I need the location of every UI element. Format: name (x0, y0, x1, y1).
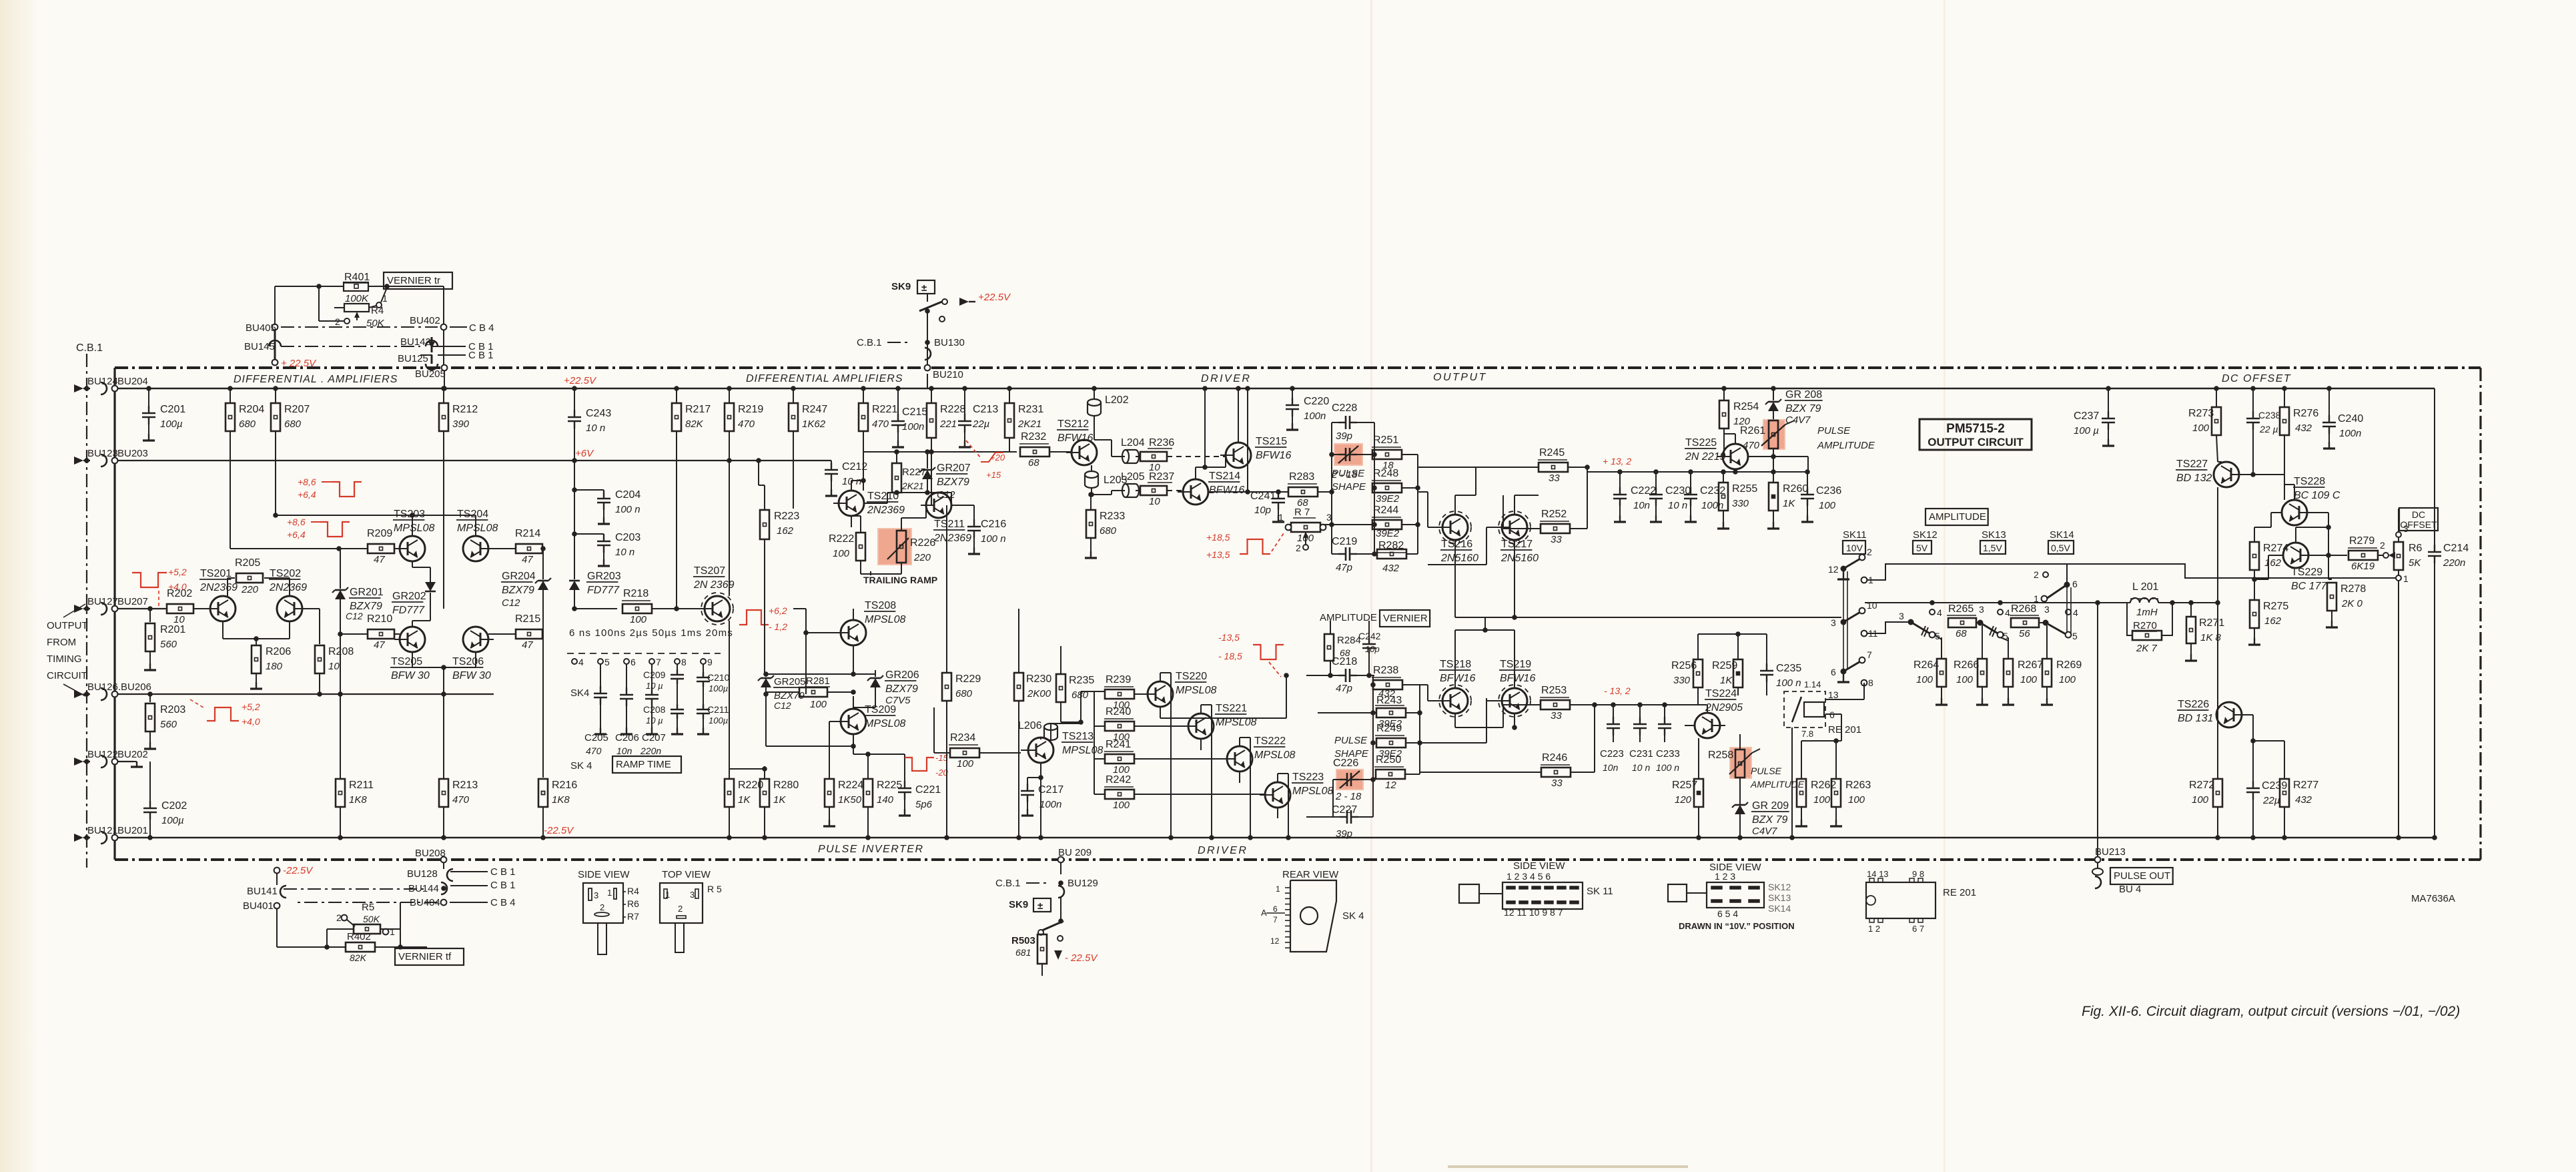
svg-text:3: 3 (2044, 604, 2050, 615)
svg-text:+8,6: +8,6 (287, 517, 306, 527)
wire rail -22.5V bottom (115, 825, 2435, 838)
resistor R204 (226, 386, 368, 549)
capacitor C214 220n (2428, 388, 2469, 840)
resistor R203 (144, 691, 185, 749)
svg-text:4: 4 (2005, 607, 2010, 618)
switch SK12 labels (1913, 529, 1938, 554)
svg-text:6 ns 100ns 2µs 50µs 1ms 2: 6 ns 100ns 2µs 50µs 1ms 20ms (569, 627, 733, 639)
svg-text:C12: C12 (937, 489, 955, 501)
svg-text:TS207: TS207 (694, 565, 725, 577)
wire driver collector rails (1160, 673, 1289, 718)
transistor TS201 (199, 568, 238, 621)
wire CB4 top (281, 322, 494, 334)
input connector BU127 (74, 596, 148, 615)
svg-text:R237: R237 (1149, 471, 1174, 483)
svg-text:100 n: 100 n (615, 504, 640, 515)
input connector BU122 (74, 749, 148, 768)
svg-text:10p: 10p (1365, 644, 1380, 654)
svg-text:+5,2: +5,2 (168, 567, 187, 577)
svg-text:1K50: 1K50 (838, 794, 862, 806)
svg-text:C226: C226 (1333, 758, 1358, 769)
svg-text:1.14: 1.14 (1804, 679, 1821, 689)
svg-text:2: 2 (336, 912, 342, 923)
transistor TS225 (1685, 437, 1748, 469)
connector BU128 (407, 866, 516, 881)
svg-text:L 201: L 201 (2132, 581, 2159, 593)
svg-text:1K62: 1K62 (802, 418, 826, 430)
switch SK4 dashed bar (567, 653, 721, 654)
resistor R268 56 (2000, 603, 2048, 659)
wire TS215 collector up (1236, 386, 1241, 443)
svg-text:Fig. XII-6. Circuit diagram, o: Fig. XII-6. Circuit diagram, output circ… (2082, 1004, 2460, 1019)
svg-text:C220: C220 (1304, 396, 1329, 407)
svg-text:C215: C215 (902, 406, 927, 418)
svg-text:10n: 10n (1603, 762, 1619, 773)
svg-text:R211: R211 (349, 780, 374, 791)
svg-text:- 1,2: - 1,2 (769, 621, 787, 632)
svg-text:R210: R210 (367, 613, 392, 625)
svg-text:TS222: TS222 (1254, 736, 1286, 747)
svg-text:R205: R205 (235, 557, 260, 569)
wire TS216 TS217 collectors (1455, 540, 1841, 620)
wire TS210-TS211 net (851, 478, 974, 527)
svg-text:2N 2369: 2N 2369 (693, 579, 735, 591)
svg-text:10p: 10p (1254, 505, 1271, 516)
svg-text:+ 22.5V: + 22.5V (281, 358, 317, 369)
capacitor C237 100u (2074, 386, 2115, 446)
svg-text:R212: R212 (452, 404, 478, 415)
drawing top view R5 (660, 869, 722, 952)
svg-text:SHAPE: SHAPE (1332, 481, 1366, 493)
svg-text:C243: C243 (586, 408, 611, 419)
resistor R228 (927, 386, 965, 493)
svg-text:680: 680 (1100, 525, 1117, 537)
resistor R254 120 (1719, 386, 1759, 444)
svg-text:L202: L202 (1105, 394, 1129, 406)
svg-text:10: 10 (1149, 496, 1160, 507)
svg-text:162: 162 (2264, 557, 2282, 569)
svg-text:C231: C231 (1629, 748, 1653, 760)
svg-text:R249: R249 (1376, 723, 1402, 734)
resistor R238 432 (1372, 665, 1402, 699)
svg-text:- 18,5: - 18,5 (1218, 651, 1242, 661)
svg-text:R4: R4 (371, 305, 384, 316)
svg-text:R240: R240 (1106, 706, 1131, 717)
svg-text:R503: R503 (1011, 935, 1035, 946)
svg-text:±: ± (921, 282, 927, 294)
transistor TS219 (1496, 659, 1535, 717)
svg-text:120: 120 (1675, 794, 1692, 806)
svg-text:C216: C216 (981, 519, 1006, 530)
capacitor C202 (143, 762, 187, 840)
capacitor C231 10n (1629, 705, 1653, 773)
svg-text:162: 162 (777, 525, 794, 537)
svg-text:R263: R263 (1845, 780, 1871, 791)
resistor R240 100 (1094, 691, 1188, 743)
trimmer R226 highlighted (877, 518, 935, 574)
svg-text:R 7: R 7 (1294, 507, 1310, 518)
resistor R233 680 (1085, 492, 1125, 558)
svg-text:BU122: BU122 (87, 749, 118, 760)
switch SK12 pole (1899, 611, 1940, 641)
resistor R249 39E2 (1375, 723, 1406, 760)
svg-text:2N2369: 2N2369 (933, 533, 971, 544)
transistor TS209 (829, 696, 905, 746)
diode GR203 FD777 (569, 461, 621, 611)
svg-text:680: 680 (284, 418, 302, 430)
svg-text:R270: R270 (2133, 620, 2157, 631)
resistor R503 681 (1011, 932, 1047, 976)
svg-text:R267: R267 (2018, 659, 2043, 671)
svg-text:DC OFFSET: DC OFFSET (2222, 373, 2291, 384)
red waveform +8,6 +6,4 lower (287, 517, 350, 540)
svg-text:C204: C204 (615, 489, 640, 501)
svg-text:+20: +20 (990, 453, 1005, 463)
svg-text:10 n: 10 n (586, 422, 605, 434)
svg-text:- 13, 2: - 13, 2 (1604, 685, 1631, 696)
wire TS225 nets (1723, 434, 1808, 475)
svg-text:6: 6 (2072, 579, 2078, 589)
svg-text:100 n: 100 n (981, 533, 1006, 545)
svg-text:GR205: GR205 (774, 676, 806, 687)
wire R6 top to bus 845 (2395, 563, 2396, 565)
transistor TS212 (1057, 418, 1097, 465)
diode GR204 BZX79 C12 (501, 546, 551, 778)
svg-text:GR204: GR204 (502, 571, 536, 582)
resistor R282 432 (1377, 540, 1406, 574)
svg-text:10: 10 (1867, 600, 1877, 611)
svg-text:BU204: BU204 (117, 376, 148, 387)
wire vernier tr top (275, 284, 444, 365)
svg-text:6: 6 (1273, 904, 1278, 914)
svg-text:BU142: BU142 (400, 336, 431, 348)
svg-text:R281: R281 (806, 675, 830, 687)
capacitor C206 (615, 664, 639, 756)
svg-text:47: 47 (374, 554, 385, 565)
resistor R281 100 (766, 675, 856, 710)
transistor TS217 (1496, 511, 1539, 564)
connector BU401 (243, 900, 280, 947)
resistor R253 33 (1540, 685, 1597, 721)
resistor R234 100 (853, 707, 1021, 770)
svg-text:R6: R6 (627, 898, 639, 909)
svg-text:R230: R230 (1026, 673, 1051, 685)
svg-text:39E2: 39E2 (1376, 528, 1400, 539)
wire TS203 TS204 collect (273, 513, 476, 536)
svg-text:VERNIER: VERNIER (1383, 613, 1428, 624)
svg-text:100 n: 100 n (1776, 677, 1801, 689)
svg-text:7.8: 7.8 (1801, 729, 1813, 739)
capacitor C239 22u (2246, 780, 2287, 840)
svg-text:470: 470 (586, 746, 602, 756)
svg-text:220n: 220n (640, 746, 661, 756)
connector BU145 (244, 330, 281, 360)
resistor R277 432 (2280, 778, 2318, 840)
svg-text:22µ: 22µ (972, 418, 989, 430)
resistor R218 100 (574, 588, 699, 625)
svg-text:TS205: TS205 (391, 656, 422, 667)
svg-text:SIDE VIEW: SIDE VIEW (578, 869, 630, 880)
resistor R263 100 (1830, 741, 1871, 826)
svg-text:2N2369: 2N2369 (199, 582, 238, 593)
svg-text:R224: R224 (838, 780, 863, 791)
red waveform +6,2 -1,2 (739, 605, 787, 632)
svg-text:100µ: 100µ (161, 815, 184, 826)
red waveform -13,5 -18,5 (1218, 632, 1284, 677)
resistor R215 47 (488, 613, 543, 651)
resistor R284 68 (1324, 621, 1361, 675)
svg-text:SK13: SK13 (1768, 892, 1791, 903)
svg-text:39p: 39p (1336, 828, 1352, 840)
svg-text:R269: R269 (2056, 659, 2082, 671)
svg-text:+4,0: +4,0 (242, 716, 260, 727)
svg-text:±: ± (1037, 900, 1043, 912)
switch SK9 lower (1009, 898, 1063, 941)
connector BU129 (995, 874, 1098, 898)
svg-text:R255: R255 (1732, 483, 1757, 495)
svg-text:10 n: 10 n (1632, 762, 1650, 773)
resistor R269 100 (2041, 625, 2082, 705)
svg-text:13: 13 (1828, 689, 1839, 700)
svg-text:R264: R264 (1913, 659, 1939, 671)
diode GR206 BZX79 C7V5 (867, 669, 919, 706)
svg-text:SK12: SK12 (1913, 529, 1938, 541)
C.B.1 vertical dash-dot line (76, 342, 103, 868)
svg-text:R228: R228 (940, 404, 965, 415)
trimmer C229 highlighted (1331, 443, 1374, 481)
svg-text:12: 12 (1828, 564, 1839, 575)
svg-text:12 11 10 9 8 7: 12 11 10 9 8 7 (1504, 907, 1563, 918)
svg-text:470: 470 (1743, 440, 1760, 451)
diode GR202 FD777 (392, 561, 436, 627)
svg-text:R401: R401 (344, 272, 370, 283)
transistor TS216 (1437, 511, 1478, 564)
svg-text:BZX 79: BZX 79 (1752, 814, 1787, 826)
svg-text:OUTPUT CIRCUIT: OUTPUT CIRCUIT (1927, 436, 2024, 449)
svg-text:R246: R246 (1542, 752, 1567, 764)
contact SK13-4 (1998, 607, 2010, 618)
svg-text:BC 109 C: BC 109 C (2294, 490, 2340, 501)
svg-text:R247: R247 (802, 404, 827, 415)
svg-text:BU202: BU202 (117, 749, 148, 760)
svg-text:220: 220 (241, 584, 259, 595)
svg-text:C201: C201 (160, 404, 185, 415)
svg-text:R266: R266 (1954, 659, 1979, 671)
resistor R266 100 (1954, 625, 1988, 705)
section title dc offset (2222, 373, 2291, 384)
svg-text:DIFFERENTIAL AMPLIFIERS: DIFFERENTIAL AMPLIFIERS (746, 373, 903, 384)
svg-text:R216: R216 (552, 780, 577, 791)
trimmer C226 highlighted (1333, 758, 1373, 802)
switch SK11 pole c (1831, 649, 1873, 699)
transistor TS226 (2177, 699, 2284, 784)
input connector BU121 (74, 825, 148, 844)
resistor R257 120 (1672, 738, 1703, 840)
svg-text:1 2 3: 1 2 3 (1715, 871, 1735, 882)
svg-text:TS203: TS203 (394, 509, 425, 520)
svg-text:R245: R245 (1539, 447, 1565, 459)
transistor TS214 (1178, 471, 1244, 505)
svg-text:10 n: 10 n (1668, 500, 1687, 511)
red waveform +5,2 +4,0 at BU206 (190, 699, 260, 727)
svg-text:C B 1: C B 1 (490, 866, 516, 878)
svg-text:82K: 82K (350, 952, 367, 963)
svg-text:R258: R258 (1708, 750, 1733, 761)
resistor R241 100 (1094, 726, 1227, 776)
svg-text:560: 560 (160, 639, 177, 650)
svg-text:1K: 1K (1720, 675, 1733, 686)
switch SK9 top (891, 280, 1011, 322)
wire TS205 TS206 emitters (412, 652, 476, 694)
svg-text:BU213: BU213 (2095, 846, 2126, 858)
svg-text:R202: R202 (167, 588, 192, 599)
svg-text:+18,5: +18,5 (1206, 532, 1230, 543)
resistor R239 100 (1104, 674, 1148, 711)
resistor R260 1K (1767, 472, 1808, 529)
svg-text:PULSE OUT: PULSE OUT (2114, 870, 2170, 882)
capacitor C212 (825, 461, 867, 496)
svg-text:PULSE: PULSE (1817, 425, 1851, 436)
capacitor C216 (967, 518, 1006, 554)
svg-text:390: 390 (452, 418, 470, 430)
svg-text:R214: R214 (515, 528, 540, 539)
svg-text:FD777: FD777 (587, 585, 620, 596)
transistor TS215 (1220, 436, 1291, 468)
resistor R272 100 (2189, 779, 2222, 840)
svg-text:C219: C219 (1332, 536, 1357, 547)
resistor R275 162 (2248, 579, 2288, 645)
resistor R224 1K50 (823, 721, 863, 826)
svg-text:+8,6: +8,6 (298, 477, 316, 487)
svg-text:1: 1 (390, 926, 395, 937)
drawing rear view SK4 (1261, 869, 1364, 952)
wire SK9 to BU130 (927, 311, 928, 368)
resistor R265 68 (1935, 603, 1983, 639)
svg-text:MPSL08: MPSL08 (1254, 750, 1295, 761)
resistor R255 330 (1717, 472, 1757, 529)
svg-text:BU210: BU210 (933, 369, 963, 380)
power -22.5V lower SK9 (1054, 942, 1098, 964)
svg-text:L205: L205 (1121, 471, 1145, 483)
svg-text:BFW 30: BFW 30 (391, 670, 430, 681)
label C227 (1332, 804, 1357, 816)
svg-text:100: 100 (2059, 674, 2076, 685)
svg-text:R234: R234 (950, 732, 975, 744)
svg-text:BFW 30: BFW 30 (452, 670, 491, 681)
svg-text:100: 100 (1819, 500, 1836, 511)
capacitor C207 (640, 664, 666, 756)
svg-text:MPSL08: MPSL08 (1062, 745, 1103, 756)
svg-text:AMPLITUDE: AMPLITUDE (1320, 612, 1377, 623)
svg-text:100n: 100n (902, 421, 924, 432)
capacitor C240 100n (2322, 386, 2363, 449)
svg-text:100: 100 (1956, 674, 1974, 685)
svg-text:1mH: 1mH (2136, 607, 2158, 618)
svg-text:C B 1: C B 1 (468, 350, 494, 361)
svg-text:47p: 47p (1336, 562, 1352, 573)
svg-text:100µ: 100µ (709, 683, 728, 693)
inductor L206 (1018, 720, 1057, 740)
svg-text:100: 100 (2192, 794, 2209, 806)
connector BU144 (408, 880, 516, 894)
wire rail BU202 (115, 761, 133, 762)
switch SK14 labels (2048, 529, 2074, 554)
svg-text:SK4: SK4 (570, 687, 589, 699)
svg-text:R280: R280 (773, 780, 799, 791)
svg-text:BZX79: BZX79 (937, 477, 969, 488)
label trailing ramp (863, 571, 937, 585)
svg-text:C213: C213 (973, 404, 998, 415)
svg-text:10 n: 10 n (615, 547, 634, 558)
svg-text:R201: R201 (160, 624, 185, 635)
resistor R259 1K (1712, 634, 1743, 695)
svg-text:1 2: 1 2 (1868, 924, 1880, 934)
resistor R245 33 (1418, 447, 1590, 484)
svg-text:100n: 100n (1304, 410, 1326, 422)
wire amplitude bus (1865, 600, 2130, 605)
resistor R235 680 (1056, 646, 1094, 722)
contact 20 and SK14-6 (2034, 564, 2088, 633)
wire TS216 TS217 emitters (1455, 467, 1541, 529)
svg-text:OFFSET: OFFSET (2400, 519, 2437, 530)
resistor R242 100 (1094, 691, 1265, 811)
svg-text:BU 4: BU 4 (2119, 884, 2141, 895)
svg-text:12: 12 (1385, 780, 1396, 791)
svg-text:C236: C236 (1816, 485, 1841, 497)
svg-text:BZX 79: BZX 79 (1785, 403, 1821, 414)
svg-text:R233: R233 (1100, 511, 1125, 522)
svg-text:10 µ: 10 µ (646, 681, 663, 691)
svg-text:R268: R268 (2011, 603, 2036, 615)
svg-text:1: 1 (1278, 512, 1284, 523)
resistor R201 (144, 606, 185, 670)
resistor R247 (789, 386, 827, 509)
svg-text:R221: R221 (872, 404, 897, 415)
svg-text:C238: C238 (2258, 410, 2281, 420)
transistor TS207 (693, 458, 735, 778)
svg-text:TS217: TS217 (1501, 539, 1533, 550)
svg-text:2N5160: 2N5160 (1440, 553, 1478, 564)
input connector BU126.BU206 (74, 681, 151, 700)
svg-text:REAR VIEW: REAR VIEW (1282, 869, 1339, 880)
diode GR209 BZX79 C4V7 (1732, 798, 1789, 840)
svg-text:BFW16: BFW16 (1256, 450, 1291, 461)
svg-text:2: 2 (2380, 540, 2385, 551)
svg-text:AMPLITUDE: AMPLITUDE (1817, 440, 1875, 451)
svg-text:220: 220 (913, 552, 931, 563)
svg-text:330: 330 (1673, 675, 1691, 686)
transistor TS221 (1183, 703, 1256, 750)
svg-text:SK14: SK14 (1768, 903, 1791, 914)
svg-text:0,5V: 0,5V (2051, 543, 2070, 553)
svg-text:TS229: TS229 (2291, 567, 2322, 578)
svg-text:L206: L206 (1018, 720, 1042, 731)
svg-text:7: 7 (1273, 915, 1278, 924)
svg-text:681: 681 (1015, 947, 1031, 958)
switch SK4 contacts (570, 657, 713, 699)
resistor R250 12 (1374, 754, 1405, 791)
transistor TS218 (1437, 659, 1475, 717)
svg-text:6: 6 (630, 657, 636, 667)
svg-text:C223: C223 (1600, 748, 1624, 760)
svg-text:C12: C12 (346, 611, 363, 621)
svg-text:MPSL08: MPSL08 (865, 718, 905, 729)
drawing side view SK11 (1459, 860, 1613, 918)
svg-text:R251: R251 (1373, 434, 1398, 446)
resistor R231 (1005, 386, 1043, 452)
svg-text:+6V: +6V (575, 448, 594, 459)
inductor L203 (1085, 465, 1128, 495)
